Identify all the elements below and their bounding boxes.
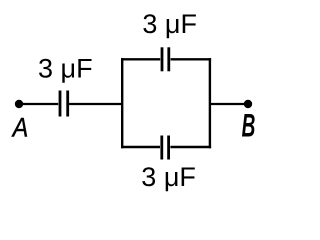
node B (244, 100, 252, 108)
node A (15, 100, 23, 108)
wire left vertical of parallel section (121, 58, 123, 148)
wire bottom branch left segment (121, 146, 160, 148)
svg-text:3 μF: 3 μF (38, 54, 93, 84)
capacitor (top branch, 3 uF) (162, 47, 169, 71)
wire top branch right segment (171, 58, 212, 60)
svg-text:B: B (242, 107, 256, 143)
wire box to node B (210, 103, 248, 105)
wire A to series capacitor (19, 103, 58, 105)
wire right vertical of parallel section (209, 58, 211, 148)
svg-text:3 μF: 3 μF (141, 162, 196, 192)
wire top branch left segment (121, 58, 160, 60)
svg-text:A: A (11, 113, 29, 143)
wire bottom branch right segment (170, 146, 211, 148)
svg-text:3 μF: 3 μF (142, 9, 197, 39)
capacitor (bottom branch, 3 uF) (162, 136, 169, 160)
wire series capacitor to parallel box (69, 103, 122, 105)
capacitor (series, 3 uF) (60, 91, 68, 117)
